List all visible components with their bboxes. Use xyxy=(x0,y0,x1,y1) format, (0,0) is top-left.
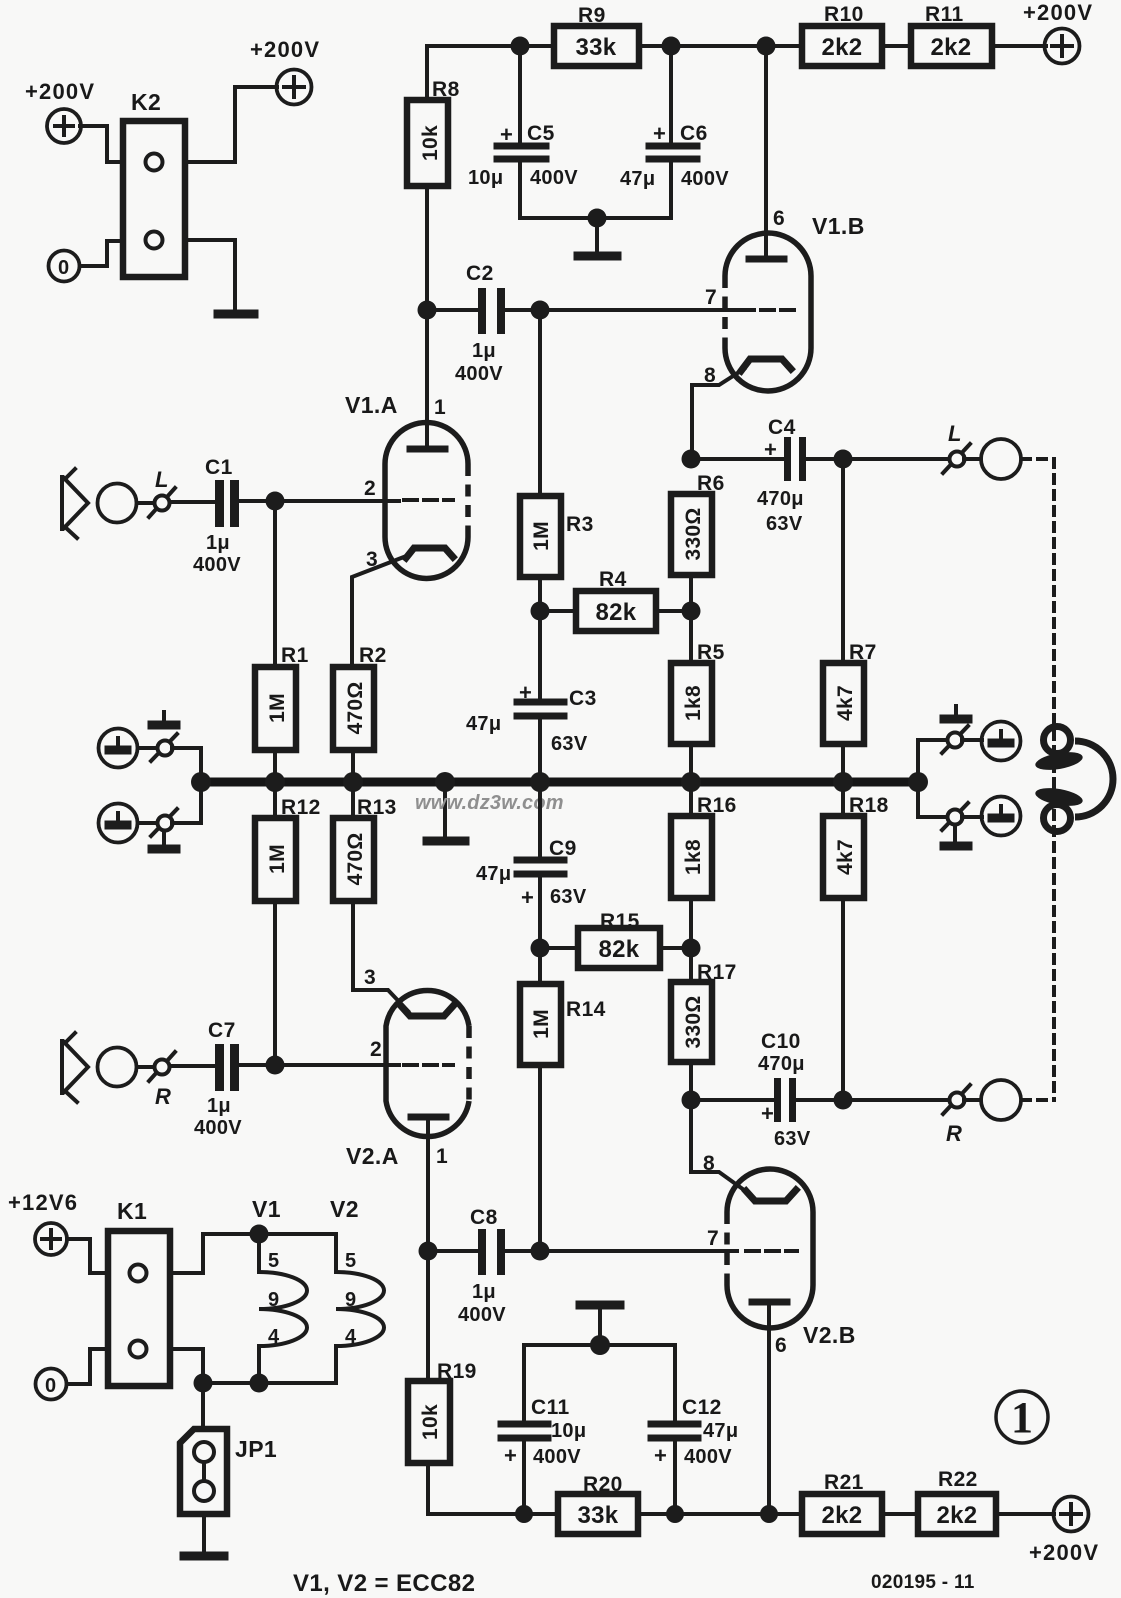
node R3/R4 xyxy=(531,602,550,621)
ground terminal input upper xyxy=(99,729,138,768)
svg-text:V1.B: V1.B xyxy=(812,213,865,239)
svg-text:C8: C8 xyxy=(470,1206,498,1229)
svg-text:R1: R1 xyxy=(281,644,309,667)
node C11/bottom rail xyxy=(515,1505,533,1523)
svg-text:C12: C12 xyxy=(682,1396,722,1419)
node C8/R14 xyxy=(531,1242,550,1261)
svg-text:7: 7 xyxy=(707,1227,719,1250)
wire bus to lower output ground switch xyxy=(918,786,947,817)
wire lower switch to bus xyxy=(172,786,201,823)
wire K1 pin 2 to heater bottoms xyxy=(170,1349,336,1383)
node V2.B anode/bottom rail xyxy=(760,1505,778,1523)
node C12/bottom rail xyxy=(666,1505,684,1523)
node bus/R7-R18 xyxy=(833,772,853,792)
svg-text:2k2: 2k2 xyxy=(822,1502,863,1529)
svg-text:10μ: 10μ xyxy=(468,167,503,189)
ground bus wire xyxy=(201,778,918,787)
svg-text:1M: 1M xyxy=(266,844,289,874)
ground below lower input switch xyxy=(152,834,176,849)
resistor R18 xyxy=(823,784,889,1100)
svg-text:63V: 63V xyxy=(550,886,587,908)
wire upper switch to bus xyxy=(172,748,201,778)
resistor R22 xyxy=(918,1468,996,1534)
resistor R20 xyxy=(558,1473,638,1534)
svg-text:9: 9 xyxy=(268,1289,279,1311)
svg-text:10μ: 10μ xyxy=(551,1420,586,1442)
svg-text:2k2: 2k2 xyxy=(937,1502,978,1529)
node C1/R1 xyxy=(266,492,285,511)
resistor R17 xyxy=(671,948,737,1100)
svg-text:+: + xyxy=(500,122,513,147)
svg-text:63V: 63V xyxy=(774,1128,811,1150)
svg-text:+200V: +200V xyxy=(25,79,95,104)
svg-text:020195 - 11: 020195 - 11 xyxy=(871,1572,975,1593)
resistor R16 xyxy=(671,784,737,948)
wire 0 terminal to K2 pin 2 xyxy=(80,241,122,266)
wire JP1 to ground xyxy=(202,1514,206,1552)
svg-text:4k7: 4k7 xyxy=(834,685,857,721)
svg-text:400V: 400V xyxy=(533,1446,581,1468)
capacitor C10 xyxy=(758,1030,811,1150)
svg-text:L: L xyxy=(155,467,168,492)
connector K1 xyxy=(108,1198,170,1386)
wire node to C4 xyxy=(691,457,784,461)
wire C7 to V2.A grid pin 2 xyxy=(239,1063,399,1067)
node V1.B cathode / R6 / C4 xyxy=(682,450,701,469)
svg-text:1M: 1M xyxy=(266,693,289,723)
svg-text:+: + xyxy=(654,1443,667,1468)
svg-text:2k2: 2k2 xyxy=(822,34,863,61)
triode V2.B xyxy=(707,1169,856,1514)
svg-text:V1.A: V1.A xyxy=(345,392,398,418)
svg-text:1: 1 xyxy=(1011,1393,1033,1442)
svg-text:400V: 400V xyxy=(681,168,729,190)
svg-text:4: 4 xyxy=(345,1326,357,1348)
wire bottom rail left xyxy=(428,1512,1054,1516)
input arrow L xyxy=(62,469,88,538)
resistor R3 xyxy=(520,310,594,611)
terminal 0 (K2) xyxy=(49,251,80,282)
svg-text:7: 7 xyxy=(705,286,717,309)
switch contact lower input ground xyxy=(151,809,177,836)
svg-text:1: 1 xyxy=(434,396,446,419)
resistor R9 xyxy=(554,4,639,66)
svg-text:1M: 1M xyxy=(530,1009,553,1039)
svg-text:8: 8 xyxy=(703,1152,715,1175)
node C5/C6 ground link xyxy=(588,209,607,228)
wire C1 to V1.A grid pin 2 xyxy=(239,499,399,503)
svg-text:10k: 10k xyxy=(419,1404,442,1440)
input terminal L xyxy=(98,484,137,523)
wire C8 to V2.B grid pin 7 xyxy=(505,1249,737,1253)
heater V2 xyxy=(330,1196,384,1383)
capacitor C5 xyxy=(468,46,578,218)
node R17/C10/V2.B cathode xyxy=(682,1091,701,1110)
resistor R15 xyxy=(540,910,691,968)
node bus left end xyxy=(191,772,211,792)
ground above upper output switch xyxy=(944,706,968,719)
svg-text:330Ω: 330Ω xyxy=(682,507,705,560)
svg-text:+200V: +200V xyxy=(1023,0,1093,25)
resistor R2 xyxy=(333,644,387,780)
node bus/R5-R16 xyxy=(681,772,701,792)
node JP1/heater bottom xyxy=(194,1374,213,1393)
resistor R6 xyxy=(671,472,725,611)
capacitor C4 xyxy=(757,416,806,535)
svg-text:1μ: 1μ xyxy=(472,1281,496,1303)
svg-text:82k: 82k xyxy=(599,936,640,963)
wire C2 to V1.B grid pin 7 xyxy=(505,308,737,312)
wire C10 to output R xyxy=(796,1098,948,1102)
capacitor C7 xyxy=(194,1019,242,1139)
svg-text:400V: 400V xyxy=(194,1117,242,1139)
svg-text:+: + xyxy=(521,885,534,910)
resistor R11 xyxy=(911,3,992,66)
switch contact output R xyxy=(943,1085,970,1146)
node bus/R1-R12 xyxy=(265,772,285,792)
svg-text:C10: C10 xyxy=(761,1030,801,1053)
node R15/R16/R17 xyxy=(682,939,701,958)
switch contact L input xyxy=(149,467,175,517)
wire bus to upper output ground switch xyxy=(918,740,947,778)
resistor R14 xyxy=(520,948,606,1251)
svg-text:1M: 1M xyxy=(530,521,553,551)
wire lower ground terminal to switch xyxy=(138,821,155,825)
svg-text:+: + xyxy=(504,1443,517,1468)
svg-text:470Ω: 470Ω xyxy=(344,681,367,734)
wire terminal to switch L xyxy=(137,501,154,505)
wire C5/C6 common to ground xyxy=(520,216,671,220)
capacitor C1 xyxy=(193,456,241,576)
svg-text:R4: R4 xyxy=(599,568,627,591)
node C11/C12 ground link xyxy=(590,1335,610,1355)
resistor R8 xyxy=(407,46,460,308)
svg-text:C5: C5 xyxy=(527,122,555,145)
wire C11/C12 common top xyxy=(524,1343,675,1347)
svg-text:1μ: 1μ xyxy=(207,1095,231,1117)
resistor R21 xyxy=(802,1471,882,1534)
svg-text:47μ: 47μ xyxy=(620,168,655,190)
svg-text:0: 0 xyxy=(45,1375,56,1397)
node bus/R2-R13 xyxy=(343,772,363,792)
switch contact upper output ground xyxy=(942,726,968,753)
triode V1.B xyxy=(692,46,865,459)
svg-text:6: 6 xyxy=(775,1334,787,1357)
triode V1.A xyxy=(345,311,468,667)
wire switch to lower ground jack xyxy=(962,815,982,819)
svg-text:+: + xyxy=(761,1101,774,1126)
svg-text:+: + xyxy=(653,121,666,146)
svg-text:1k8: 1k8 xyxy=(682,685,705,721)
svg-text:R3: R3 xyxy=(566,513,594,536)
svg-text:5: 5 xyxy=(268,1250,279,1272)
capacitor C12 xyxy=(651,1345,738,1514)
input arrow R xyxy=(62,1033,88,1102)
svg-text:3: 3 xyxy=(364,966,376,989)
svg-text:R: R xyxy=(946,1121,962,1146)
power terminal +12V6 xyxy=(8,1190,78,1255)
svg-text:4k7: 4k7 xyxy=(834,839,857,875)
wire top +200V rail xyxy=(427,44,1046,48)
node C7/R12 xyxy=(266,1056,285,1075)
wire switch to C7 xyxy=(170,1064,215,1068)
svg-text:2: 2 xyxy=(370,1038,382,1061)
svg-text:+200V: +200V xyxy=(250,37,320,62)
svg-text:V2: V2 xyxy=(330,1196,359,1222)
svg-text:C1: C1 xyxy=(205,456,233,479)
ground (C5/C6) xyxy=(595,218,599,252)
svg-text:47μ: 47μ xyxy=(476,863,511,885)
svg-text:C4: C4 xyxy=(768,416,796,439)
power terminal +200V bottom-right xyxy=(1029,1497,1099,1566)
wire +12V6 to K1 pin 1 xyxy=(67,1239,108,1273)
ground (bus center) xyxy=(443,782,447,838)
ground above upper input switch xyxy=(152,712,176,725)
capacitor C6 xyxy=(620,46,729,218)
capacitor C8 xyxy=(428,1206,506,1326)
svg-text:R11: R11 xyxy=(925,3,964,26)
svg-text:R22: R22 xyxy=(938,1468,978,1491)
svg-text:R14: R14 xyxy=(566,998,606,1021)
wire switch to upper ground jack xyxy=(962,738,982,742)
figure number 1 xyxy=(996,1391,1048,1443)
triode V2.A xyxy=(346,966,469,1251)
resistor R19 xyxy=(408,1251,477,1514)
wire terminal to switch R xyxy=(137,1065,154,1069)
wire node to C10 xyxy=(691,1098,774,1102)
wire C4 to output L xyxy=(806,457,948,461)
svg-text:V2.A: V2.A xyxy=(346,1143,399,1169)
power terminal +200V top-left xyxy=(25,79,95,143)
svg-text:47μ: 47μ xyxy=(466,713,501,735)
node V2.A anode/C8/R19 xyxy=(419,1242,438,1261)
wire K2 pin 1 to +200V out terminal xyxy=(186,87,277,162)
svg-text:V2.B: V2.B xyxy=(803,1322,856,1348)
connector K2 xyxy=(123,89,185,277)
switch contact R input xyxy=(149,1052,175,1109)
svg-text:R10: R10 xyxy=(824,3,864,26)
node rail/C5 xyxy=(511,37,530,56)
wire +200V terminal to K2 pin 1 xyxy=(80,126,122,162)
node C2/R3 xyxy=(531,301,550,320)
power terminal +200V (K2 output) xyxy=(250,37,320,105)
resistor R5 xyxy=(671,611,725,780)
svg-text:1k8: 1k8 xyxy=(682,839,705,875)
svg-text:400V: 400V xyxy=(530,167,578,189)
node bus right end xyxy=(908,772,928,792)
node R4/R5/R6 xyxy=(682,602,701,621)
ground (JP1) xyxy=(184,1552,224,1561)
svg-text:400V: 400V xyxy=(684,1446,732,1468)
svg-text:C3: C3 xyxy=(569,687,597,710)
output jack L xyxy=(981,439,1021,479)
ground (K2) xyxy=(218,310,254,319)
node bus/ground stub xyxy=(435,772,455,792)
ground jack lower xyxy=(982,797,1021,836)
node heater V1 top xyxy=(250,1225,269,1244)
svg-text:R2: R2 xyxy=(359,644,387,667)
ground jack upper xyxy=(982,722,1021,761)
node heater V1 bottom xyxy=(250,1374,269,1393)
wire K1 pin 1 to heaters xyxy=(170,1234,336,1273)
svg-text:+200V: +200V xyxy=(1029,1540,1099,1565)
svg-text:470μ: 470μ xyxy=(757,488,804,510)
resistor R13 xyxy=(333,784,408,1011)
svg-text:C2: C2 xyxy=(466,262,494,285)
dashed wire R jack to headphones xyxy=(1022,1098,1054,1102)
svg-text:+12V6: +12V6 xyxy=(8,1190,78,1215)
headphones xyxy=(1034,727,1113,832)
svg-text:V1: V1 xyxy=(252,1196,281,1222)
wire switch to L jack xyxy=(964,457,981,461)
svg-text:R21: R21 xyxy=(824,1471,864,1494)
power terminal +200V top-right xyxy=(1023,0,1093,64)
svg-text:K2: K2 xyxy=(131,89,161,115)
switch contact upper input ground xyxy=(151,734,177,761)
wire node to V2.B cathode pin 8 xyxy=(691,1100,744,1190)
svg-text:C11: C11 xyxy=(531,1396,570,1419)
svg-text:C6: C6 xyxy=(680,122,708,145)
svg-text:V1, V2 = ECC82: V1, V2 = ECC82 xyxy=(293,1570,475,1597)
svg-text:63V: 63V xyxy=(551,733,588,755)
svg-text:JP1: JP1 xyxy=(235,1436,277,1462)
svg-text:400V: 400V xyxy=(193,554,241,576)
node R8/C2/V1.A anode xyxy=(418,301,437,320)
wire upper ground terminal to switch xyxy=(138,746,155,750)
svg-text:2k2: 2k2 xyxy=(931,34,972,61)
svg-text:5: 5 xyxy=(345,1250,356,1272)
capacitor C2 xyxy=(427,262,505,385)
resistor R7 xyxy=(823,459,877,780)
svg-text:470μ: 470μ xyxy=(758,1053,805,1075)
jumper JP1 xyxy=(180,1429,277,1514)
svg-text:0: 0 xyxy=(58,257,69,279)
node C10/R18 xyxy=(834,1091,853,1110)
svg-text:4: 4 xyxy=(268,1326,280,1348)
svg-text:+: + xyxy=(764,437,777,462)
svg-text:C7: C7 xyxy=(208,1019,236,1042)
svg-text:1μ: 1μ xyxy=(472,340,496,362)
heater V1 xyxy=(252,1196,307,1383)
svg-text:330Ω: 330Ω xyxy=(682,995,705,1048)
svg-text:R: R xyxy=(155,1084,171,1109)
switch contact lower output ground xyxy=(942,803,968,830)
svg-text:2: 2 xyxy=(364,477,376,500)
node bus/C3-C9 xyxy=(530,772,550,792)
input terminal R xyxy=(98,1048,137,1087)
terminal 0 (K1) xyxy=(36,1369,67,1400)
svg-text:6: 6 xyxy=(773,207,785,230)
capacitor C11 xyxy=(501,1345,586,1514)
node C4/R7 xyxy=(834,450,853,469)
ground below lower output switch xyxy=(944,828,968,846)
svg-text:33k: 33k xyxy=(576,34,617,61)
wire K2 pin 2 to ground xyxy=(186,240,235,309)
capacitor C3 xyxy=(466,611,597,780)
svg-text:+: + xyxy=(519,680,532,705)
svg-text:63V: 63V xyxy=(766,513,803,535)
wire switch to R jack xyxy=(964,1098,981,1102)
svg-text:1μ: 1μ xyxy=(206,532,230,554)
svg-text:47μ: 47μ xyxy=(703,1420,738,1442)
svg-text:1: 1 xyxy=(436,1145,448,1168)
output jack R xyxy=(981,1080,1021,1120)
resistor R10 xyxy=(802,3,882,66)
node C9/R15 xyxy=(531,939,550,958)
node rail/V1.B anode xyxy=(757,37,776,56)
switch contact output L xyxy=(943,421,970,473)
wire switch to C1 xyxy=(170,500,215,504)
svg-text:33k: 33k xyxy=(578,1502,619,1529)
svg-text:10k: 10k xyxy=(419,125,442,161)
svg-text:9: 9 xyxy=(345,1289,356,1311)
resistor R12 xyxy=(255,784,321,1064)
resistor R1 xyxy=(255,501,309,780)
wire 0 terminal to K1 pin 2 xyxy=(67,1349,108,1384)
svg-text:L: L xyxy=(948,421,961,446)
node rail/C6 xyxy=(662,37,681,56)
capacitor C9 xyxy=(476,784,587,948)
svg-text:K1: K1 xyxy=(117,1198,147,1224)
svg-text:C9: C9 xyxy=(549,837,577,860)
svg-text:82k: 82k xyxy=(596,599,637,626)
svg-text:470Ω: 470Ω xyxy=(344,832,367,885)
ground stub above C11/C12 xyxy=(580,1305,620,1345)
resistor R4 xyxy=(540,568,691,631)
svg-text:400V: 400V xyxy=(455,363,503,385)
wire to jumper JP1 xyxy=(201,1383,205,1429)
dashed wire L jack to headphones xyxy=(1022,459,1054,1100)
svg-text:400V: 400V xyxy=(458,1304,506,1326)
ground terminal input lower xyxy=(99,804,138,843)
